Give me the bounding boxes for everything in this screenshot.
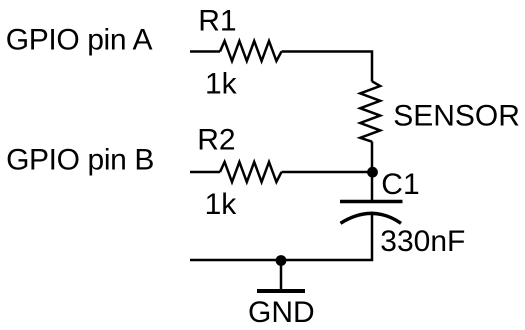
resistor SENSOR xyxy=(360,81,380,141)
wire C1 bottom to ground rail xyxy=(190,212,372,261)
resistor R1 xyxy=(220,41,282,61)
wire R1 to sensor top xyxy=(282,52,373,82)
ground symbol xyxy=(257,260,305,291)
svg-text:GND: GND xyxy=(248,296,315,329)
wire sensor to junction xyxy=(371,142,374,173)
svg-text:C1: C1 xyxy=(381,168,419,201)
wire GPIO B to R2 xyxy=(190,171,220,174)
junction dot at sensor/C1 node xyxy=(367,167,378,178)
wire GPIO A to R1 xyxy=(190,50,220,53)
svg-text:R2: R2 xyxy=(197,124,235,157)
wire R2 to junction xyxy=(282,171,373,174)
resistor R2 xyxy=(220,162,282,182)
svg-text:330nF: 330nF xyxy=(380,225,465,258)
svg-text:1k: 1k xyxy=(205,68,238,101)
svg-text:GPIO pin A: GPIO pin A xyxy=(6,24,153,57)
svg-text:GPIO pin B: GPIO pin B xyxy=(6,144,154,177)
junction dot at ground rail xyxy=(276,255,287,266)
svg-text:SENSOR: SENSOR xyxy=(393,99,520,132)
capacitor C1 xyxy=(340,202,403,224)
svg-text:1k: 1k xyxy=(205,188,238,221)
wire junction to C1 top plate xyxy=(371,173,374,202)
svg-text:R1: R1 xyxy=(198,5,236,38)
